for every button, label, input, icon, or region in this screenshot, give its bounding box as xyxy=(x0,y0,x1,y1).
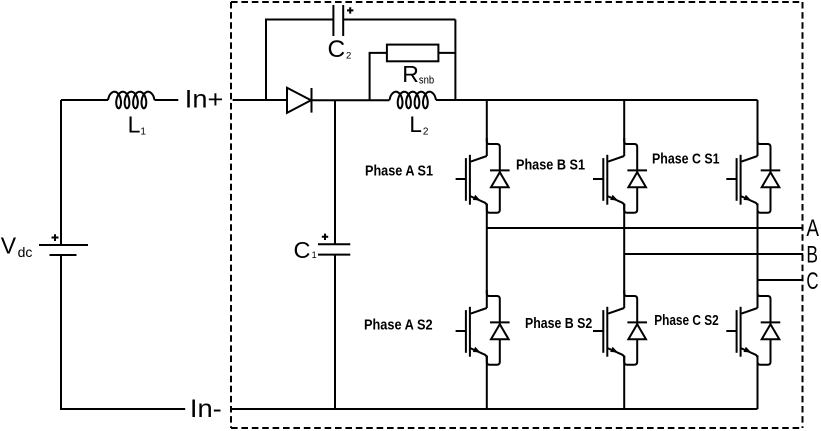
capacitor C2 xyxy=(333,5,343,36)
wire: Rsnb left riser xyxy=(370,53,387,100)
inductor L2 xyxy=(390,92,437,109)
svg-text:Phase A S1: Phase A S1 xyxy=(365,163,433,180)
wire: L1 to In+ label xyxy=(155,99,179,101)
svg-text:C1: C1 xyxy=(294,237,317,263)
antiparallel diode for Phase B S1 xyxy=(624,138,647,213)
wire: top-left from Vdc to L1 xyxy=(61,99,108,101)
wire: output line C xyxy=(758,279,804,281)
IGBT Phase B S1 xyxy=(593,155,624,206)
wire: phase B midpoint leg xyxy=(623,204,625,309)
svg-text:Phase B S1: Phase B S1 xyxy=(516,157,585,174)
antiparallel diode for Phase A S1 xyxy=(487,138,510,213)
voltage source Vdc (battery) xyxy=(39,245,88,255)
IGBT Phase C S2 xyxy=(726,307,757,358)
IGBT Phase A S2 xyxy=(456,307,487,358)
wire: output line B xyxy=(624,253,803,255)
wire: C1 bottom to In- rail xyxy=(334,255,336,409)
wire: phase A leg emitter to bottom rail xyxy=(486,356,488,410)
wire: In+ into enclosure to diode xyxy=(233,99,287,101)
C2 + sign xyxy=(347,7,353,13)
wire: phase B leg emitter to bottom rail xyxy=(623,356,625,410)
svg-text:L1: L1 xyxy=(128,112,147,138)
wire: phase A leg collector from top rail xyxy=(486,100,488,156)
svg-text:Vdc: Vdc xyxy=(1,232,33,260)
wire: Rsnb right connector xyxy=(438,52,455,54)
svg-text:Phase C S2: Phase C S2 xyxy=(654,312,719,329)
wire: diode to L2 xyxy=(312,99,390,101)
wire: C1 top branch from main line xyxy=(334,100,336,244)
IGBT Phase C S1 xyxy=(726,155,757,206)
svg-text:C: C xyxy=(806,268,818,295)
svg-text:In-: In- xyxy=(190,395,222,423)
wire: bottom In- rail xyxy=(232,408,758,410)
svg-text:Rsnb: Rsnb xyxy=(402,61,434,87)
dashed enclosure border right xyxy=(802,2,804,428)
svg-text:L2: L2 xyxy=(409,112,429,137)
wire: riser from In+ node up to C2 xyxy=(266,20,333,101)
wire: phase C leg emitter to bottom rail xyxy=(757,356,759,410)
antiparallel diode for Phase A S2 xyxy=(487,290,510,365)
wire: Vdc positive terminal up to top-left corner xyxy=(60,100,62,245)
antiparallel diode for Phase B S2 xyxy=(624,290,647,365)
wire: phase C midpoint leg xyxy=(757,204,759,309)
antiparallel diode for Phase C S2 xyxy=(758,290,781,365)
IGBT Phase A S1 xyxy=(456,155,487,206)
svg-text:Phase B S2: Phase B S2 xyxy=(525,315,592,332)
IGBT Phase B S2 xyxy=(593,307,624,358)
dashed enclosure border bottom xyxy=(231,427,803,429)
resistor Rsnb xyxy=(387,45,439,62)
wire: C2 right plate to right riser xyxy=(343,19,455,21)
wire: Vdc negative terminal down and to In- xyxy=(61,255,185,409)
svg-text:C2: C2 xyxy=(328,36,352,63)
wire: output line A xyxy=(487,227,803,229)
wire: phase C leg collector from top rail xyxy=(757,100,759,156)
dashed enclosure border left xyxy=(230,2,232,428)
C1 + sign xyxy=(322,234,328,240)
svg-text:A: A xyxy=(806,215,819,242)
diode D1 (series input diode) xyxy=(287,88,312,113)
capacitor C1 xyxy=(318,244,350,254)
wire: phase A midpoint leg xyxy=(486,204,488,309)
battery + sign xyxy=(52,234,59,241)
antiparallel diode for Phase C S1 xyxy=(758,138,781,213)
wire: right riser down to main line after L2 xyxy=(454,20,456,101)
inductor L1 xyxy=(108,92,155,109)
wire: phase B leg collector from top rail xyxy=(623,100,625,156)
dashed enclosure border top xyxy=(231,1,803,3)
svg-text:In+: In+ xyxy=(185,85,224,113)
wire: top DC rail from L2 to phase C leg xyxy=(436,99,758,101)
svg-text:Phase C S1: Phase C S1 xyxy=(652,151,720,168)
svg-text:B: B xyxy=(806,242,818,269)
svg-text:Phase A S2: Phase A S2 xyxy=(364,317,433,334)
